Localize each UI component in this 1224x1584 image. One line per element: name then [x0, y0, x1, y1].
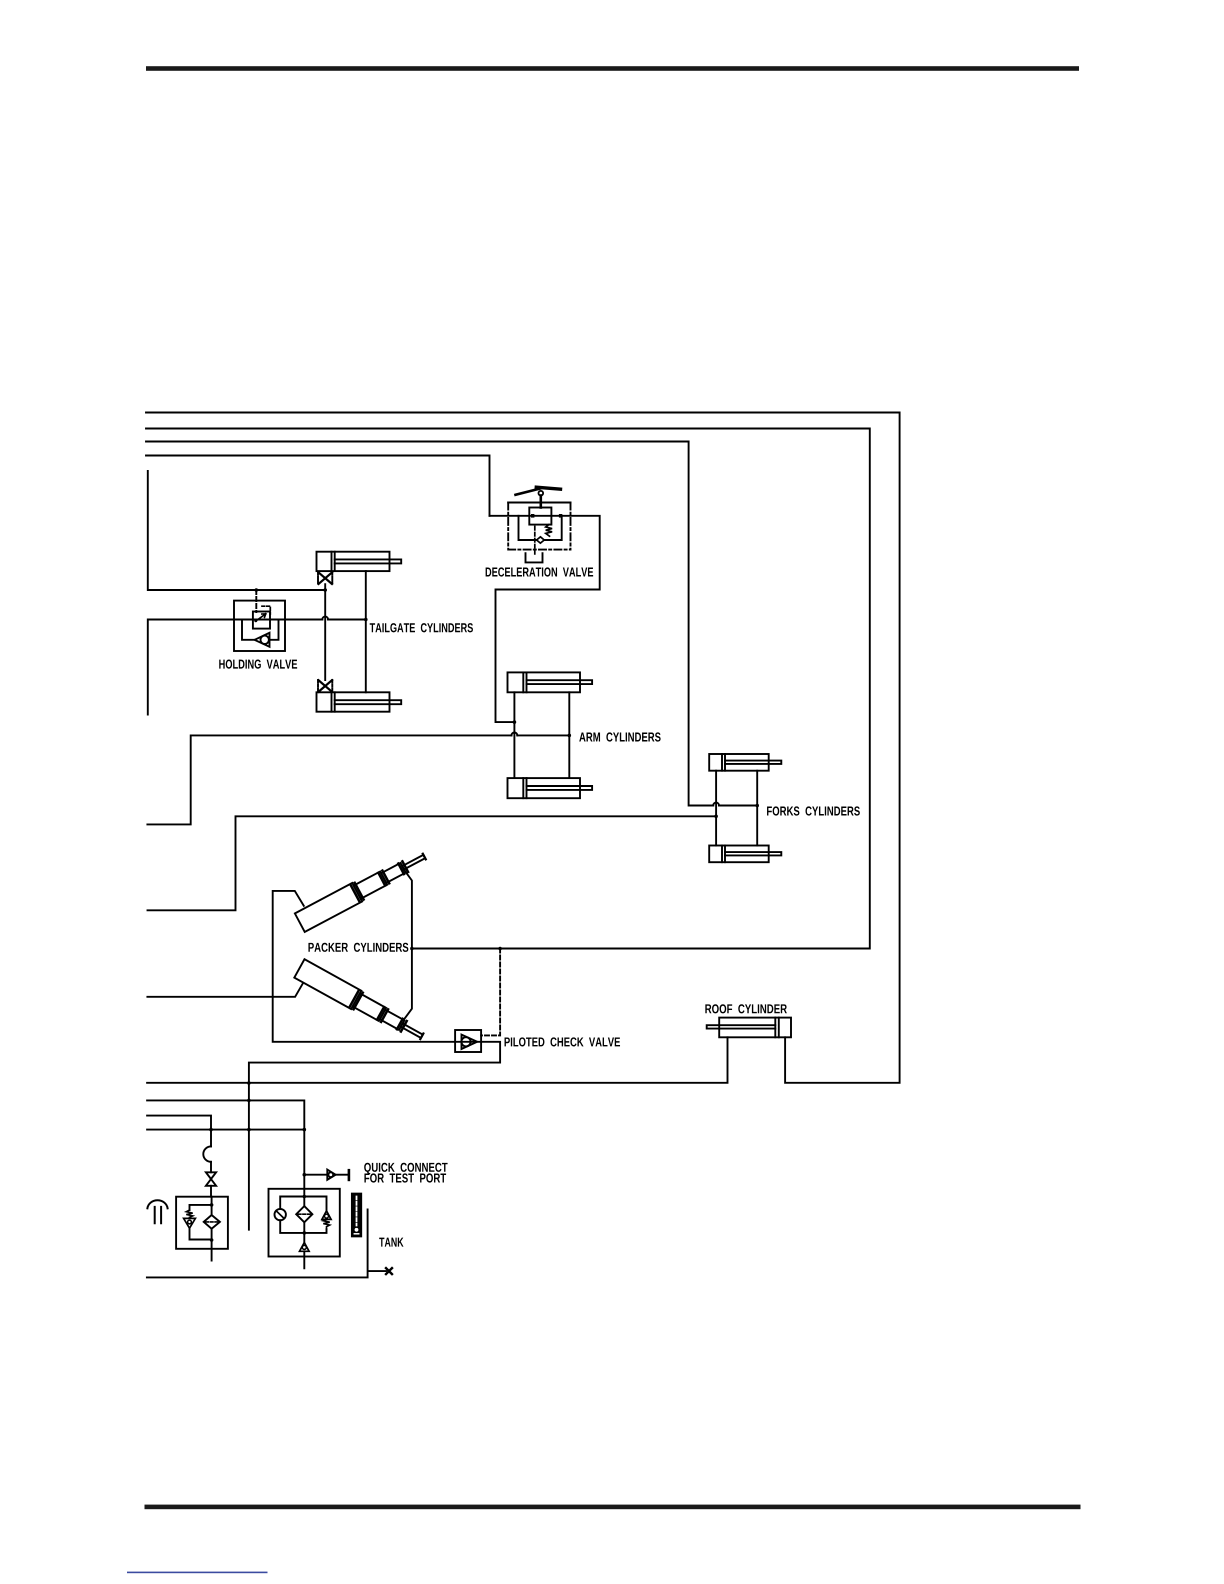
crossing hop at tailgate cap line [322, 617, 328, 620]
wire: tailgate cap-side vertical [324, 584, 326, 680]
wire: tank return bottom line [147, 1210, 386, 1278]
quick connect for test port [327, 1170, 349, 1180]
label QUICK CONNECT [364, 1163, 447, 1175]
wire: forks rod-side vertical [756, 771, 758, 846]
wire: quick connect branch [304, 1174, 327, 1176]
wire: packer cap line to piloted check valve [273, 891, 455, 1042]
wire: piloted check valve output line [249, 1042, 500, 1230]
roof cylinder [707, 1018, 791, 1038]
top rule [146, 66, 1079, 71]
wire: tailgate rod-side vertical [365, 571, 367, 692]
wire: into left filter [210, 1186, 212, 1197]
forks cylinder lower [709, 846, 781, 863]
wire: tailgate cap-side feed line [148, 471, 325, 590]
label FORKS CYLINDERS [767, 806, 860, 815]
tank level strip [352, 1194, 361, 1237]
label PILOTED CHECK VALVE [505, 1037, 621, 1046]
wire: manifold line A [147, 1100, 304, 1129]
left return filter assembly [176, 1197, 228, 1261]
deceleration valve [508, 487, 570, 562]
wire: pressure line 4 to deceleration valve [146, 456, 490, 516]
sampling coupling (arc) [203, 1146, 211, 1161]
wire: pressure line 3 to forks rod-side port [146, 442, 757, 806]
wire: arm cap-side vertical [513, 692, 515, 778]
wire: forks cap-side feed line [148, 816, 717, 910]
label HOLDING VALVE [219, 660, 297, 669]
wire: packer rod-side right vertical [404, 870, 412, 1019]
wire: pressure line 2 to packer rod-side line [146, 429, 870, 949]
piloted check valve [455, 1030, 481, 1052]
forks cylinder upper [709, 754, 781, 771]
arm cylinder upper [508, 672, 593, 692]
tailgate upper port orifice block (X) [318, 572, 332, 584]
bottom rule [145, 1505, 1081, 1510]
label TAILGATE CYLINDERS [370, 623, 473, 632]
pilot line (dashed) packer line to piloted check valve [481, 949, 500, 1036]
packer cylinder lower (telescopic) [294, 959, 427, 1045]
crossing hop at forks cap line [713, 803, 719, 806]
plugged port X cap [386, 1268, 392, 1274]
wire: branch to shutoff valve [210, 1162, 212, 1173]
tailgate cylinder upper [317, 552, 402, 571]
shutoff valve (bowtie) [206, 1172, 216, 1186]
crossing hop at arm cap line [512, 733, 518, 736]
pilot line (dashed) holding valve [255, 590, 257, 612]
right pressure filter assembly [269, 1189, 340, 1269]
wire: tailgate rod-side feed line through holding valve [148, 620, 366, 715]
wire: deceleration valve through line and output to arm cap port [490, 516, 600, 722]
wire: roof cylinder left port line [147, 1037, 727, 1083]
tailgate lower port orifice block (X) [318, 680, 332, 692]
label TANK [379, 1238, 403, 1247]
wire: manifold vertical to pressure filter [303, 1130, 305, 1189]
label DECELERATION VALVE [486, 567, 594, 576]
label FOR TEST PORT [364, 1173, 446, 1182]
wire: arm rod-side feed line [147, 735, 569, 824]
wire: packer bottom cylinder cap feed line [147, 984, 302, 997]
junction dots [209, 514, 759, 1242]
tailgate cylinder lower [317, 692, 402, 711]
blue footer link line [127, 1572, 268, 1574]
wire: manifold line C [147, 1129, 304, 1131]
holding valve [234, 601, 285, 651]
label ARM CYLINDERS [579, 732, 660, 741]
label ROOF CYLINDER [705, 1004, 787, 1013]
wire: forks cap-side vertical [715, 771, 717, 846]
air breather [147, 1200, 167, 1223]
packer cylinder upper (telescopic) [295, 847, 429, 932]
wire: arm rod-side vertical [568, 692, 570, 778]
wire: manifold line B to shutoff valve branch [147, 1116, 211, 1147]
arm cylinder lower [508, 778, 593, 798]
label PACKER CYLINDERS [308, 943, 408, 952]
wire: pressure line 1 to roof cylinder right port [146, 413, 900, 1083]
